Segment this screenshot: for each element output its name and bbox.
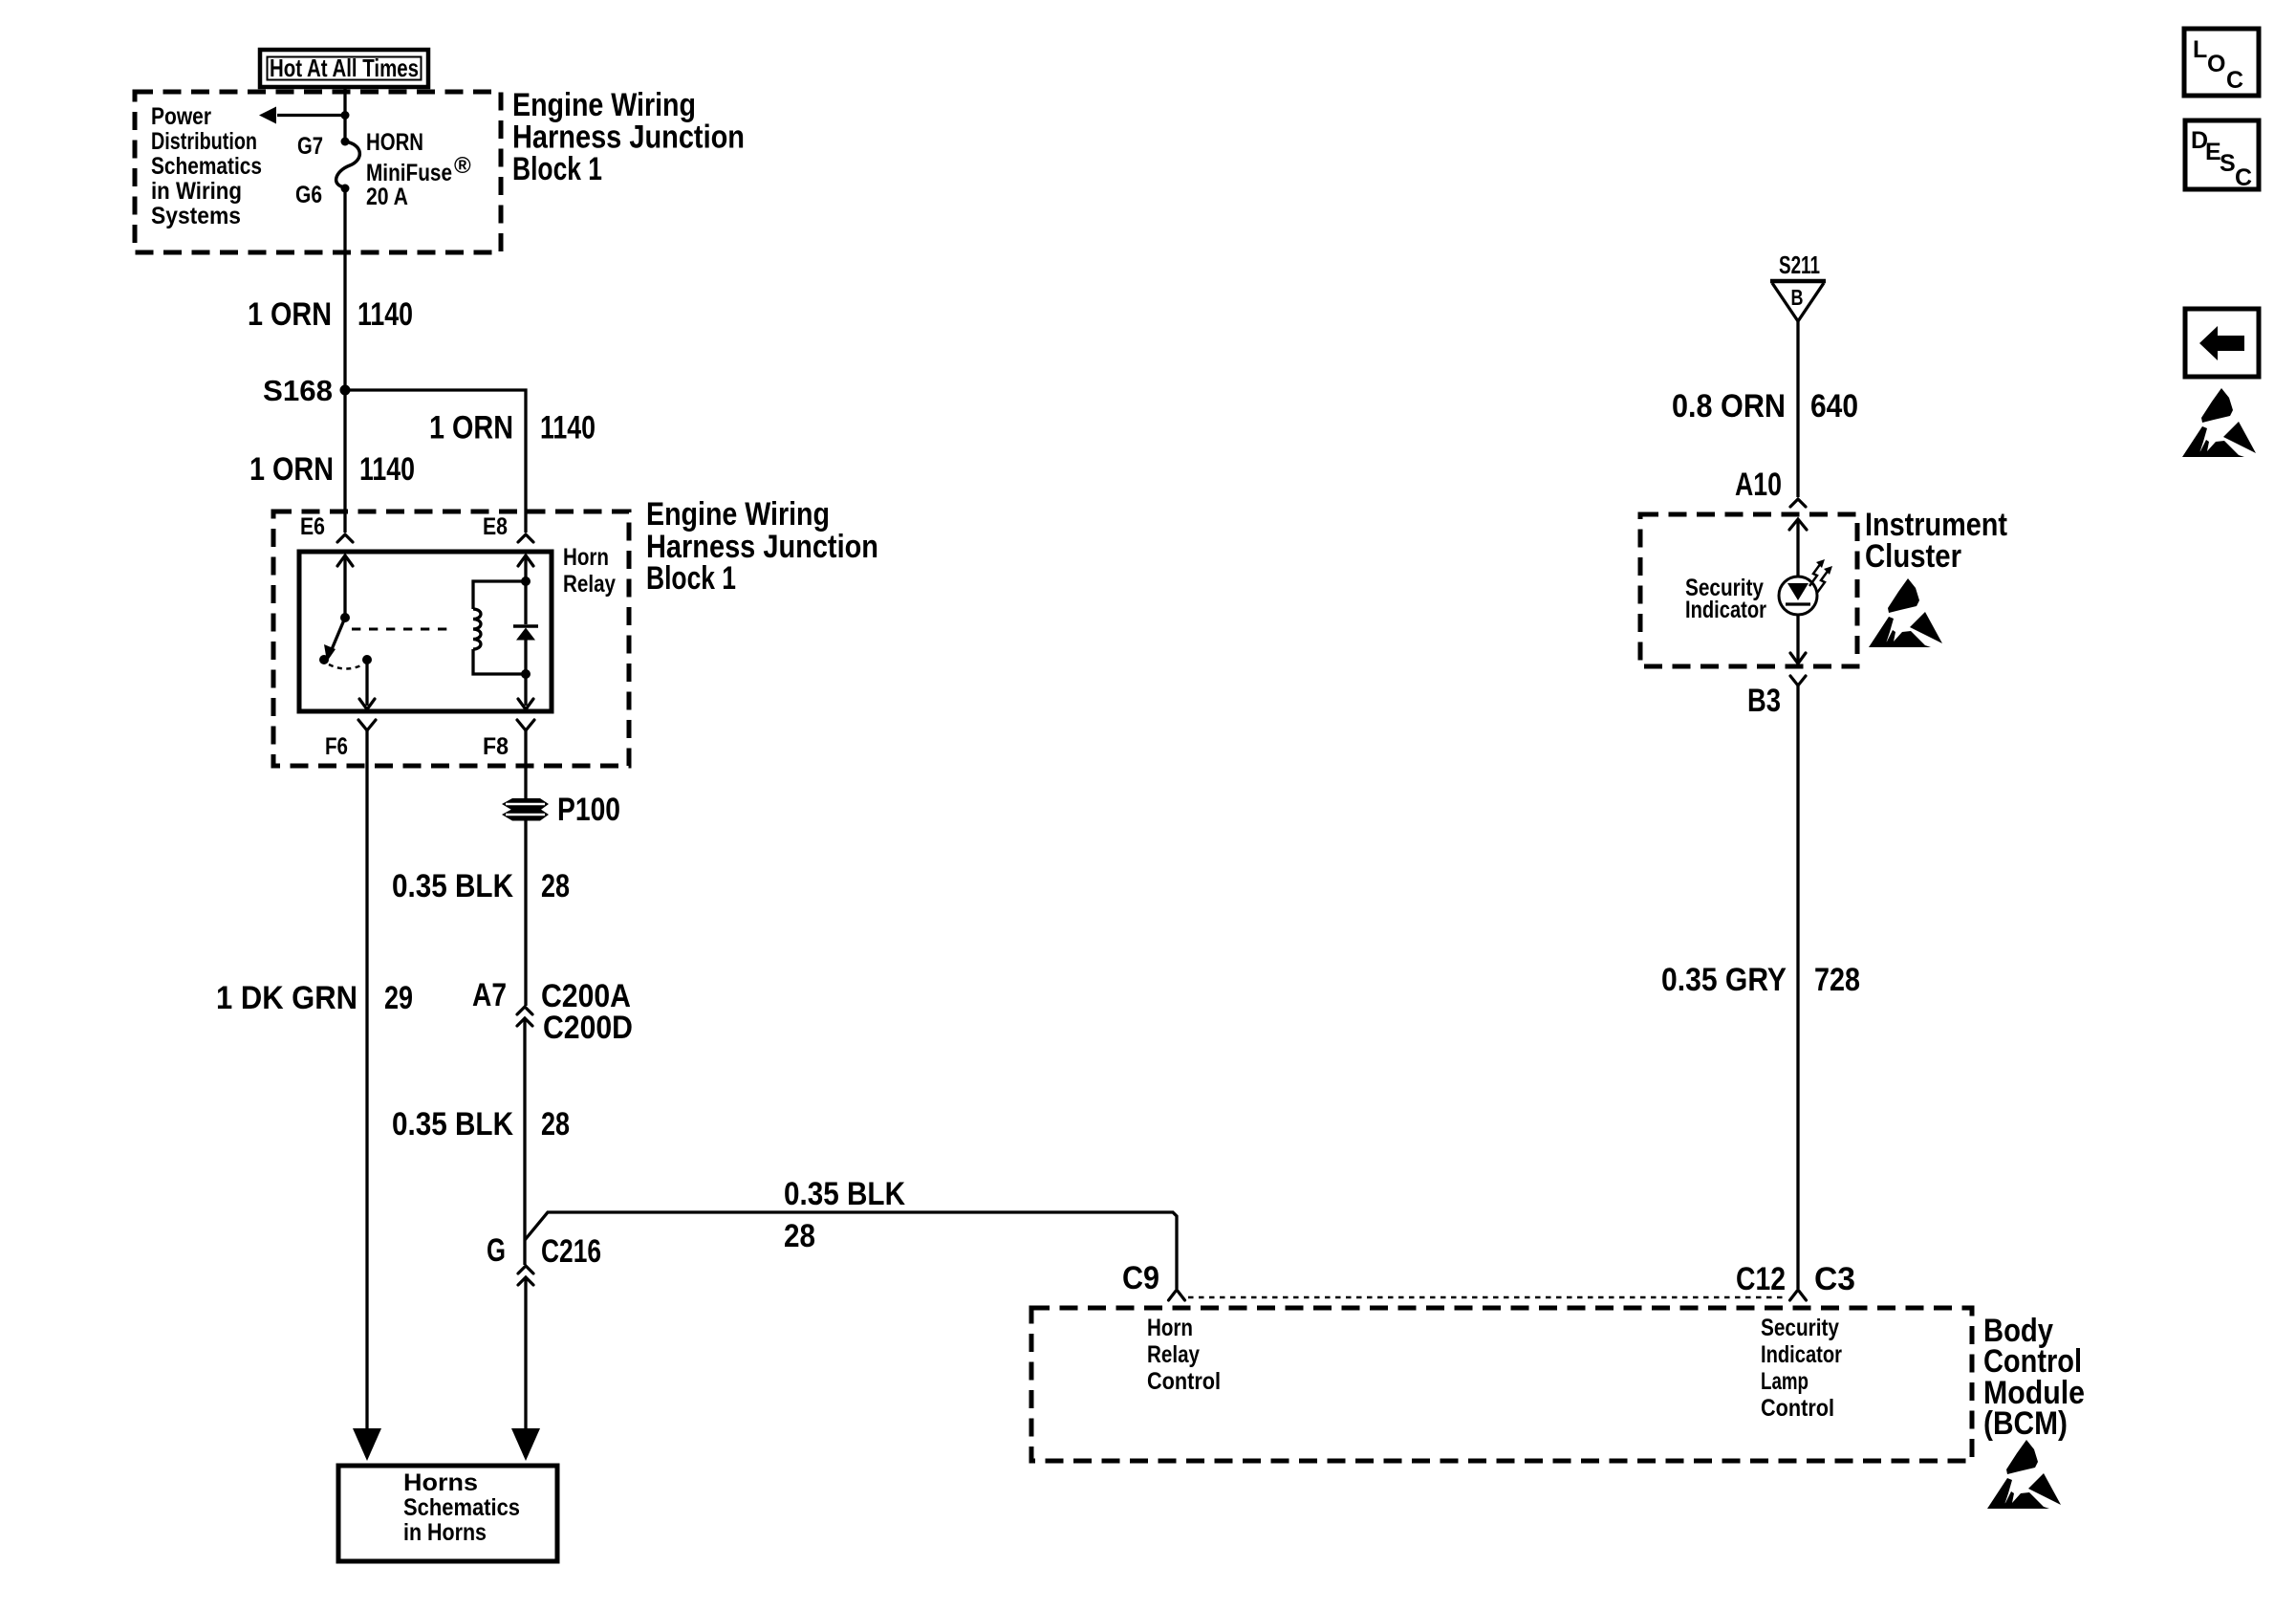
svg-text:S168: S168 bbox=[263, 374, 333, 407]
svg-text:Horn: Horn bbox=[563, 544, 609, 571]
svg-text:(BCM): (BCM) bbox=[1983, 1405, 2068, 1442]
svg-text:1 ORN: 1 ORN bbox=[429, 410, 513, 446]
svg-text:28: 28 bbox=[541, 868, 570, 904]
svg-text:C3: C3 bbox=[1814, 1261, 1855, 1297]
svg-text:Control: Control bbox=[1147, 1368, 1221, 1395]
svg-text:Hot At All Times: Hot At All Times bbox=[270, 54, 419, 82]
svg-text:640: 640 bbox=[1810, 388, 1858, 424]
svg-text:Indicator: Indicator bbox=[1761, 1341, 1842, 1368]
svg-text:Distribution: Distribution bbox=[151, 128, 257, 155]
svg-text:C12: C12 bbox=[1736, 1261, 1786, 1297]
svg-text:0.35 BLK: 0.35 BLK bbox=[392, 868, 513, 904]
svg-text:S: S bbox=[2220, 150, 2236, 177]
svg-text:F8: F8 bbox=[483, 733, 509, 760]
svg-text:E6: E6 bbox=[300, 513, 325, 540]
svg-text:1 ORN: 1 ORN bbox=[249, 451, 334, 488]
svg-text:29: 29 bbox=[384, 980, 413, 1016]
svg-text:MiniFuse: MiniFuse bbox=[366, 160, 452, 186]
svg-text:C200D: C200D bbox=[543, 1010, 633, 1046]
svg-text:Schematics: Schematics bbox=[151, 153, 262, 180]
svg-text:G7: G7 bbox=[297, 133, 323, 160]
svg-text:Control: Control bbox=[1761, 1395, 1834, 1422]
svg-text:O: O bbox=[2207, 51, 2225, 77]
svg-text:1140: 1140 bbox=[359, 451, 415, 488]
svg-text:B: B bbox=[1791, 285, 1804, 310]
svg-text:HORN: HORN bbox=[366, 129, 423, 156]
svg-text:1 ORN: 1 ORN bbox=[248, 296, 332, 333]
svg-text:Power: Power bbox=[151, 103, 211, 130]
svg-text:Engine Wiring: Engine Wiring bbox=[512, 87, 696, 123]
svg-text:0.35 BLK: 0.35 BLK bbox=[784, 1176, 905, 1212]
svg-text:1 DK GRN: 1 DK GRN bbox=[216, 980, 357, 1016]
svg-text:728: 728 bbox=[1814, 962, 1860, 998]
svg-text:Harness Junction: Harness Junction bbox=[512, 120, 745, 156]
svg-text:F6: F6 bbox=[325, 733, 348, 760]
svg-text:Lamp: Lamp bbox=[1761, 1368, 1809, 1395]
svg-text:28: 28 bbox=[784, 1218, 815, 1254]
svg-text:B3: B3 bbox=[1747, 683, 1781, 719]
svg-text:Relay: Relay bbox=[563, 571, 616, 598]
svg-text:S211: S211 bbox=[1779, 250, 1820, 279]
svg-text:C: C bbox=[2226, 67, 2243, 94]
svg-text:0.35 BLK: 0.35 BLK bbox=[392, 1106, 513, 1142]
svg-text:Cluster: Cluster bbox=[1865, 538, 1961, 575]
svg-text:Indicator: Indicator bbox=[1685, 597, 1766, 623]
svg-text:C9: C9 bbox=[1122, 1260, 1159, 1296]
svg-text:Security: Security bbox=[1761, 1315, 1839, 1341]
svg-text:in Horns: in Horns bbox=[403, 1519, 487, 1546]
svg-text:20 A: 20 A bbox=[366, 184, 408, 210]
svg-text:0.35 GRY: 0.35 GRY bbox=[1661, 962, 1787, 998]
svg-text:P100: P100 bbox=[557, 792, 620, 828]
svg-text:Engine Wiring: Engine Wiring bbox=[646, 496, 830, 533]
svg-text:1140: 1140 bbox=[357, 296, 413, 333]
svg-text:C216: C216 bbox=[541, 1233, 601, 1270]
svg-text:0.8 ORN: 0.8 ORN bbox=[1672, 388, 1786, 424]
svg-text:Horns: Horns bbox=[403, 1469, 478, 1496]
svg-text:in Wiring: in Wiring bbox=[151, 178, 242, 205]
svg-text:1140: 1140 bbox=[540, 410, 596, 446]
svg-text:E8: E8 bbox=[483, 513, 508, 540]
svg-text:A10: A10 bbox=[1735, 467, 1782, 503]
svg-text:Block 1: Block 1 bbox=[512, 151, 602, 187]
svg-text:C: C bbox=[2235, 164, 2252, 191]
svg-text:L: L bbox=[2193, 36, 2207, 63]
svg-text:28: 28 bbox=[541, 1106, 570, 1142]
svg-text:Horn: Horn bbox=[1147, 1315, 1193, 1341]
svg-text:Systems: Systems bbox=[151, 203, 241, 229]
svg-text:Schematics: Schematics bbox=[403, 1494, 520, 1521]
svg-text:G6: G6 bbox=[295, 182, 322, 208]
svg-text:A7: A7 bbox=[472, 977, 507, 1013]
svg-text:G: G bbox=[487, 1232, 506, 1269]
svg-text:Relay: Relay bbox=[1147, 1341, 1200, 1368]
svg-text:®: ® bbox=[454, 153, 471, 179]
svg-text:Block 1: Block 1 bbox=[646, 560, 736, 597]
